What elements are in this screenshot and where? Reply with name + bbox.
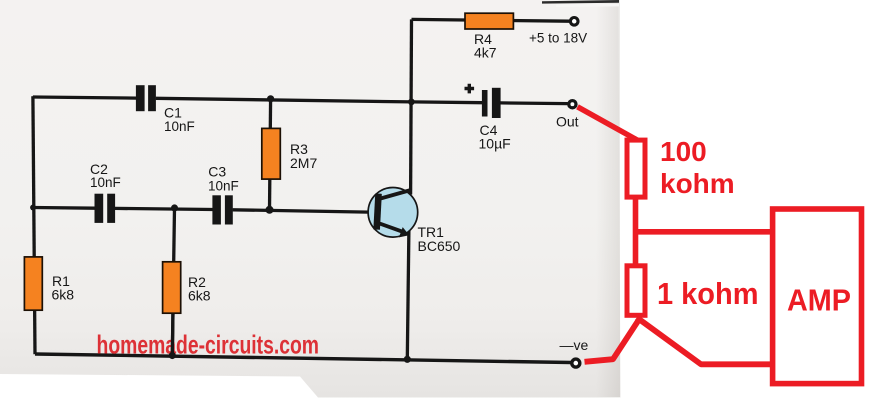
scanned paper background [0, 0, 621, 398]
AMP block [773, 209, 862, 384]
resistor R2 [163, 262, 181, 313]
capacitor C4 polarized [465, 84, 501, 118]
wire: R3 vertical branch [270, 99, 271, 210]
red wire 1k bottom to AMP return [637, 318, 771, 365]
svg-text:10nF: 10nF [90, 175, 121, 190]
svg-text:BC650: BC650 [418, 238, 461, 254]
junction dot bottom rail / emitter rail [404, 356, 411, 363]
resistor R3 [262, 128, 281, 179]
svg-text:2M7: 2M7 [290, 155, 317, 171]
red wire junction to AMP input [633, 229, 771, 235]
scan top-right edge line [542, 0, 619, 4]
wire: supply top wire R4 row [412, 19, 570, 21]
wire: base row segment 2 [115, 208, 213, 209]
svg-text:+5 to 18V: +5 to 18V [529, 31, 587, 46]
resistor R1 [24, 257, 42, 310]
red wire Out to 100k [578, 107, 639, 141]
transistor TR1 [368, 188, 418, 238]
terminal -ve [572, 359, 580, 367]
junction dot base row / R3 [266, 206, 274, 214]
svg-text:kohm: kohm [660, 168, 735, 199]
svg-text:10nF: 10nF [164, 119, 195, 134]
capacitor C1 [136, 85, 156, 111]
svg-text:6k8: 6k8 [52, 287, 75, 303]
svg-text:1 kohm: 1 kohm [657, 277, 759, 311]
wire: C4 wire right segment [500, 101, 567, 105]
resistor 1 kohm (red box) [627, 266, 645, 316]
wire: C1 top wire left segment [33, 97, 136, 98]
svg-text:C3: C3 [208, 164, 226, 180]
junction dot base row / R2 [171, 204, 178, 211]
red wire between 100k and 1k [633, 195, 639, 266]
svg-text:—ve: —ve [560, 337, 589, 353]
svg-text:Out: Out [556, 113, 579, 129]
terminal +5 to 18V [570, 18, 578, 26]
junction dot top wire / main vertical [408, 99, 415, 106]
resistor R4 [465, 13, 513, 29]
svg-text:homemade-circuits.com: homemade-circuits.com [97, 330, 320, 360]
svg-text:4k7: 4k7 [474, 45, 497, 61]
junction dot top wire / R3 [267, 95, 274, 102]
wire: C4 wire left segment [411, 100, 482, 104]
junction dot left rail / base row [30, 205, 36, 211]
svg-text:6k8: 6k8 [188, 288, 211, 304]
wire: R2 vertical branch [172, 208, 174, 356]
terminal Out [569, 101, 576, 108]
red wire 1k bottom to -ve terminal [585, 321, 639, 362]
svg-text:10µF: 10µF [479, 136, 511, 152]
capacitor C3 [212, 195, 232, 224]
wire: C1 top wire right segment [156, 98, 412, 102]
wire: base row segment 3 [233, 210, 369, 212]
svg-text:AMP: AMP [787, 283, 851, 318]
wire: main vertical (emitter rail) lower [407, 230, 409, 360]
wire: base row segment 1 [33, 206, 95, 210]
svg-text:100: 100 [660, 136, 707, 167]
svg-text:10nF: 10nF [208, 178, 239, 193]
wire: bottom ground rail [35, 354, 571, 363]
capacitor C2 [95, 194, 116, 223]
resistor 100 kohm (red box) [627, 140, 645, 197]
wire: left vertical rail [33, 96, 35, 354]
wire: main vertical (collector rail) upper [409, 19, 413, 194]
wire: R2 branch over watermark [171, 300, 175, 356]
junction dot bottom rail / R2 [169, 352, 176, 359]
